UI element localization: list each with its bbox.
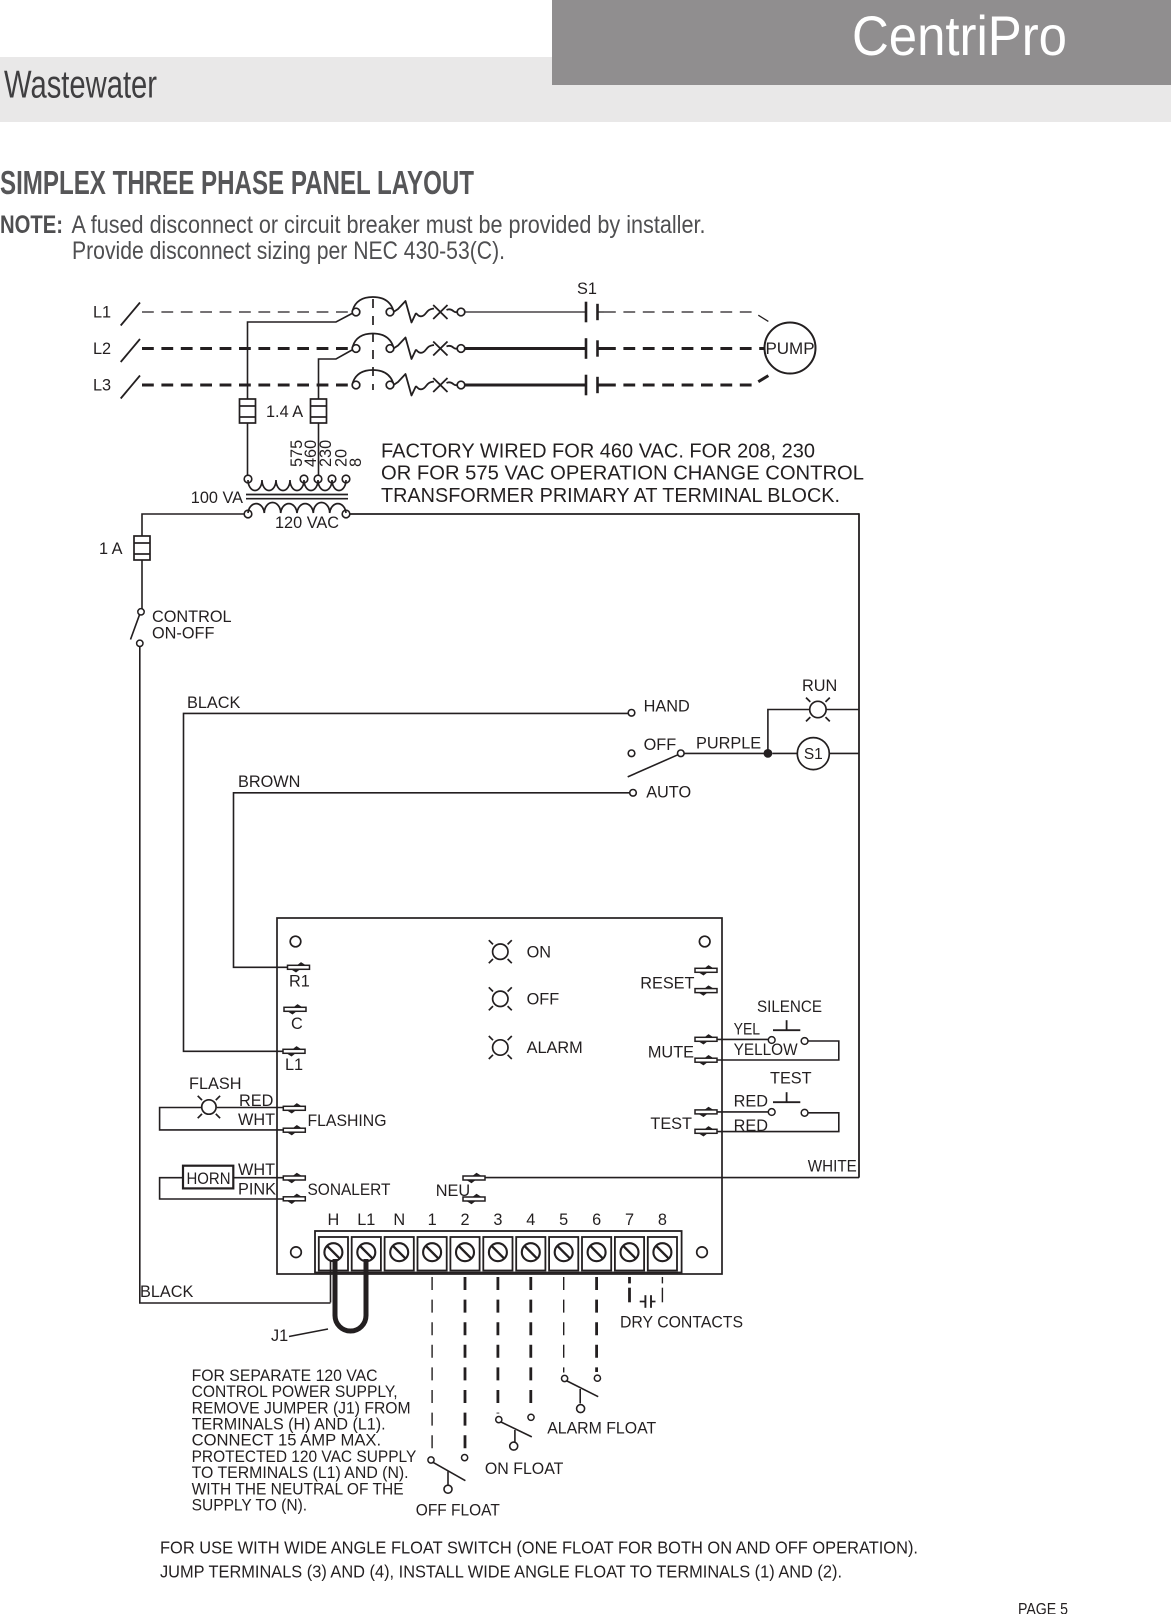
wire dashed L3 to contactor bbox=[142, 384, 348, 387]
svg-text:3: 3 bbox=[493, 1211, 502, 1229]
svg-text:BLACK: BLACK bbox=[187, 694, 241, 712]
wire dashed terminal 2 drop bbox=[464, 1277, 467, 1452]
svg-text:8: 8 bbox=[658, 1211, 667, 1229]
terminal 2 cell bbox=[450, 1237, 479, 1271]
terminal 7 label bbox=[625, 1211, 634, 1229]
terminal 1 label bbox=[428, 1211, 437, 1229]
mounting hole top right bbox=[699, 936, 710, 947]
fuse F2 bbox=[311, 399, 327, 423]
contactor S1 power pole L2 bbox=[352, 334, 394, 353]
wire RED flash to tab bbox=[217, 1107, 287, 1109]
svg-text:NOTE:: NOTE: bbox=[0, 211, 63, 239]
wire OL to S1 contact L1 bbox=[465, 311, 585, 313]
terminal H cell bbox=[319, 1237, 348, 1271]
terminal 4 label bbox=[526, 1211, 535, 1229]
disconnect blade L3 bbox=[121, 376, 140, 399]
wire dashed terminal 5 drop bbox=[563, 1277, 565, 1373]
wire junction to coil S1 bbox=[772, 752, 797, 754]
svg-text:YELLOW: YELLOW bbox=[734, 1041, 799, 1059]
selector switch HAND-OFF-AUTO bbox=[628, 710, 684, 797]
terminal tab NEU top bbox=[463, 1173, 485, 1183]
svg-text:100 VA: 100 VA bbox=[191, 489, 243, 507]
control board outline bbox=[277, 918, 722, 1274]
terminal N label bbox=[393, 1211, 405, 1229]
transformer primary tap labels 575 460 230 208 bbox=[288, 440, 306, 467]
transformer T1 primary winding with taps bbox=[244, 475, 350, 490]
horn box bbox=[183, 1166, 233, 1189]
wire tap L2 to fuse F2 bbox=[319, 350, 353, 399]
terminal tab SONALERT wht bbox=[283, 1173, 305, 1183]
svg-text:N: N bbox=[393, 1211, 405, 1229]
svg-text:7: 7 bbox=[625, 1211, 634, 1229]
contact S1 pole L2 bbox=[586, 338, 604, 359]
svg-text:PAGE 5: PAGE 5 bbox=[1018, 1601, 1068, 1615]
svg-text:1: 1 bbox=[428, 1211, 437, 1229]
lamp RUN bbox=[806, 698, 830, 722]
terminal 6 cell bbox=[582, 1237, 611, 1271]
terminal 4 cell bbox=[516, 1237, 545, 1271]
terminal tab FLASHING wht bbox=[283, 1125, 305, 1135]
wire BROWN to AUTO bbox=[234, 793, 630, 968]
svg-text:RED: RED bbox=[734, 1093, 768, 1111]
svg-text:NEU: NEU bbox=[436, 1182, 470, 1200]
svg-text:TEST: TEST bbox=[650, 1115, 692, 1133]
wire RUN lamp to bus bbox=[826, 709, 859, 711]
svg-text:J1: J1 bbox=[271, 1327, 288, 1345]
overload heater OL L3 bbox=[394, 374, 465, 396]
svg-text:RED: RED bbox=[239, 1092, 273, 1110]
terminal 5 cell bbox=[549, 1237, 578, 1271]
disconnect blade L1 bbox=[121, 303, 140, 326]
wire control switch down to H terminal bbox=[140, 647, 331, 1304]
terminal N cell bbox=[385, 1237, 414, 1271]
svg-text:MUTE: MUTE bbox=[648, 1043, 694, 1061]
svg-text:TRANSFORMER PRIMARY AT TERMINA: TRANSFORMER PRIMARY AT TERMINAL BLOCK. bbox=[381, 484, 840, 507]
svg-text:1.4 A: 1.4 A bbox=[266, 403, 303, 421]
terminal tab RESET top bbox=[695, 965, 717, 975]
coil S1 bbox=[797, 738, 829, 770]
svg-text:SIMPLEX THREE PHASE PANEL LAYO: SIMPLEX THREE PHASE PANEL LAYOUT bbox=[0, 165, 474, 202]
terminal L1 cell bbox=[352, 1237, 381, 1271]
junction node bbox=[764, 749, 773, 758]
wire dashed S1 to pump L1 bbox=[604, 312, 769, 322]
svg-text:FOR USE WITH WIDE ANGLE FLOAT: FOR USE WITH WIDE ANGLE FLOAT SWITCH (ON… bbox=[160, 1538, 918, 1558]
svg-text:ON: ON bbox=[527, 943, 551, 961]
fuse F3 1 A bbox=[134, 536, 150, 560]
svg-text:BROWN: BROWN bbox=[238, 773, 300, 791]
svg-text:PURPLE: PURPLE bbox=[696, 735, 761, 753]
terminal 1 cell bbox=[418, 1237, 447, 1271]
wire dashed L1 to contactor bbox=[142, 311, 348, 313]
terminal tab TEST bottom bbox=[695, 1126, 717, 1136]
header light gray bar bbox=[0, 57, 1171, 122]
svg-text:S1: S1 bbox=[577, 280, 597, 298]
wire OL to S1 contact L2 bbox=[465, 347, 585, 350]
wire OL to S1 contact L3 bbox=[465, 384, 585, 387]
wire secondary left to fuse 1A bbox=[142, 514, 244, 536]
terminal tab RESET bottom bbox=[695, 985, 717, 995]
terminal tab MUTE bottom bbox=[695, 1055, 717, 1065]
terminal L1 label bbox=[357, 1211, 375, 1229]
svg-text:Provide disconnect sizing per: Provide disconnect sizing per NEC 430-53… bbox=[72, 237, 505, 265]
svg-text:L1: L1 bbox=[285, 1056, 303, 1074]
wire BLACK to HAND bbox=[184, 713, 629, 1051]
mounting hole bottom right bbox=[697, 1247, 708, 1258]
svg-text:L1: L1 bbox=[357, 1211, 375, 1229]
terminal strip outline bbox=[315, 1231, 682, 1273]
wire PINK horn loop bbox=[160, 1178, 287, 1199]
header gray CentriPro box bbox=[552, 0, 1171, 85]
terminal tab C bbox=[284, 1004, 306, 1014]
svg-text:OR FOR 575 VAC OPERATION CHANG: OR FOR 575 VAC OPERATION CHANGE CONTROL bbox=[381, 462, 864, 485]
wire junction to RUN lamp bbox=[768, 710, 810, 754]
svg-text:JUMP TERMINALS (3) AND (4), IN: JUMP TERMINALS (3) AND (4), INSTALL WIDE… bbox=[160, 1561, 842, 1581]
node L2 label bbox=[93, 340, 111, 358]
terminal 5 label bbox=[559, 1211, 568, 1229]
terminal tab SONALERT pink bbox=[283, 1194, 305, 1204]
terminal 8 label bbox=[658, 1211, 667, 1229]
switch ON FLOAT bbox=[496, 1414, 534, 1450]
overload heater OL L2 bbox=[394, 338, 465, 360]
contactor S1 power pole L3 bbox=[352, 370, 394, 389]
svg-text:DRY CONTACTS: DRY CONTACTS bbox=[620, 1314, 743, 1332]
wire secondary right to bus bbox=[350, 513, 859, 515]
svg-text:OFF: OFF bbox=[644, 736, 677, 754]
node L1 label bbox=[93, 304, 111, 322]
svg-text:FLASHING: FLASHING bbox=[308, 1112, 387, 1130]
svg-text:120 VAC: 120 VAC bbox=[275, 514, 339, 532]
svg-text:SUPPLY TO (N).: SUPPLY TO (N). bbox=[192, 1496, 308, 1515]
svg-text:R1: R1 bbox=[289, 973, 310, 991]
svg-text:TEST: TEST bbox=[770, 1069, 812, 1087]
wire coil S1 to bus bbox=[829, 752, 859, 754]
pump motor bbox=[765, 323, 816, 374]
switch OFF FLOAT bbox=[428, 1455, 468, 1494]
bus wire right side bbox=[858, 513, 860, 1177]
svg-text:WHT: WHT bbox=[238, 1111, 275, 1129]
wire dashed terminal 7 drop bbox=[628, 1277, 631, 1302]
svg-text:RED: RED bbox=[734, 1117, 768, 1135]
contactor S1 power pole L1 bbox=[352, 297, 394, 316]
wire PURPLE from selector to junction bbox=[684, 752, 768, 754]
transformer core bbox=[246, 495, 348, 499]
svg-text:Wastewater: Wastewater bbox=[4, 64, 157, 107]
terminal tab MUTE top bbox=[695, 1034, 717, 1044]
terminal tab L1 board bbox=[283, 1046, 305, 1056]
svg-text:RESET: RESET bbox=[640, 975, 694, 993]
wire F2 to transformer 460 tap bbox=[318, 423, 320, 476]
dry contact symbol bbox=[640, 1295, 656, 1308]
terminal tab R1 bbox=[288, 962, 310, 972]
lamp OFF bbox=[489, 987, 512, 1010]
svg-text:L2: L2 bbox=[93, 340, 111, 358]
svg-text:ON FLOAT: ON FLOAT bbox=[485, 1460, 564, 1478]
switch ALARM FLOAT bbox=[562, 1375, 601, 1413]
wire dashed terminal 4 drop bbox=[529, 1277, 532, 1411]
wire WHT flash loop bbox=[160, 1108, 287, 1130]
svg-text:2: 2 bbox=[460, 1211, 469, 1229]
wire dashed S1 to pump L2 bbox=[604, 347, 764, 350]
svg-text:C: C bbox=[291, 1015, 303, 1033]
svg-text:A fused disconnect or circuit: A fused disconnect or circuit breaker mu… bbox=[72, 211, 706, 239]
wire F1 to transformer 575 tap bbox=[247, 423, 249, 476]
wire dashed terminal 6 drop bbox=[595, 1277, 598, 1372]
svg-text:8: 8 bbox=[347, 458, 365, 467]
svg-text:AUTO: AUTO bbox=[646, 783, 691, 801]
contact S1 pole L1 bbox=[586, 302, 604, 323]
lamp ALARM bbox=[489, 1036, 512, 1059]
svg-text:SONALERT: SONALERT bbox=[308, 1181, 391, 1199]
terminal 8 cell bbox=[648, 1237, 677, 1271]
svg-text:OFF: OFF bbox=[527, 990, 560, 1008]
svg-text:6: 6 bbox=[592, 1211, 601, 1229]
svg-text:PUMP: PUMP bbox=[765, 339, 814, 358]
svg-text:4: 4 bbox=[526, 1211, 535, 1229]
pushbutton TEST bbox=[768, 1092, 808, 1116]
svg-text:WHITE: WHITE bbox=[808, 1158, 857, 1176]
contact S1 pole L3 bbox=[586, 375, 604, 396]
svg-text:CONTROL: CONTROL bbox=[152, 608, 232, 626]
wire dashed terminal 1 drop bbox=[431, 1277, 433, 1454]
J1 pointer line bbox=[289, 1329, 328, 1337]
transformer T1 secondary winding 120 VAC bbox=[244, 502, 350, 517]
wire dashed L2 to contactor bbox=[142, 347, 348, 350]
svg-text:PINK: PINK bbox=[238, 1181, 276, 1199]
jumper J1 bbox=[335, 1259, 366, 1331]
terminal tab TEST top bbox=[695, 1107, 717, 1117]
svg-text:BLACK: BLACK bbox=[140, 1283, 194, 1301]
terminal 3 cell bbox=[483, 1237, 512, 1271]
wire dashed S1 to pump L3 bbox=[604, 376, 769, 386]
svg-text:H: H bbox=[328, 1211, 340, 1229]
wire YELLOW silence button loop bbox=[717, 1041, 839, 1060]
wire F3 to control switch bbox=[141, 560, 143, 609]
contactor mechanical link bbox=[372, 299, 374, 390]
svg-text:ALARM FLOAT: ALARM FLOAT bbox=[547, 1419, 656, 1437]
wire H terminal thin drop bbox=[330, 1261, 332, 1303]
lamp FLASH bbox=[198, 1096, 220, 1118]
svg-text:YEL: YEL bbox=[734, 1021, 761, 1039]
wire RED test top bbox=[717, 1111, 768, 1113]
terminal 3 label bbox=[493, 1211, 502, 1229]
wire YEL mute to silence button bbox=[717, 1038, 768, 1040]
wire RED test button loop bbox=[717, 1113, 839, 1132]
terminal tab FLASHING red bbox=[283, 1103, 305, 1113]
svg-text:L1: L1 bbox=[93, 304, 111, 322]
wire tap L1 to fuse F1 bbox=[248, 314, 353, 400]
svg-text:S1: S1 bbox=[804, 746, 823, 763]
svg-text:SILENCE: SILENCE bbox=[757, 998, 822, 1016]
svg-text:ON-OFF: ON-OFF bbox=[152, 624, 214, 642]
terminal 2 label bbox=[460, 1211, 469, 1229]
svg-text:1 A: 1 A bbox=[99, 540, 123, 558]
svg-text:FLASH: FLASH bbox=[189, 1075, 241, 1093]
svg-text:L3: L3 bbox=[93, 377, 111, 395]
svg-text:CentriPro: CentriPro bbox=[852, 4, 1067, 67]
svg-text:OFF FLOAT: OFF FLOAT bbox=[416, 1501, 500, 1519]
wire WHT horn to tab bbox=[233, 1177, 287, 1179]
terminal 7 cell bbox=[615, 1237, 644, 1271]
svg-text:HAND: HAND bbox=[644, 697, 690, 715]
lamp ON bbox=[489, 940, 512, 963]
wire NEU to bus WHITE bbox=[486, 1177, 860, 1179]
pushbutton SILENCE bbox=[768, 1020, 808, 1044]
svg-text:5: 5 bbox=[559, 1211, 568, 1229]
svg-text:ALARM: ALARM bbox=[527, 1039, 583, 1057]
mounting hole top left bbox=[290, 936, 301, 947]
node L3 label bbox=[93, 377, 111, 395]
svg-text:FACTORY WIRED FOR 460 VAC. FOR: FACTORY WIRED FOR 460 VAC. FOR 208, 230 bbox=[381, 440, 815, 463]
mounting hole bottom left bbox=[291, 1247, 302, 1258]
wire dashed terminal 8 drop bbox=[661, 1277, 663, 1302]
terminal H label bbox=[328, 1211, 340, 1229]
terminal 6 label bbox=[592, 1211, 601, 1229]
terminal tab NEU bottom bbox=[463, 1194, 485, 1204]
overload heater OL L1 bbox=[394, 301, 465, 323]
fuse F1 bbox=[240, 399, 256, 423]
wire dashed terminal 3 drop bbox=[496, 1277, 499, 1414]
svg-text:WHT: WHT bbox=[238, 1161, 275, 1179]
disconnect blade L2 bbox=[121, 339, 140, 362]
switch CONTROL ON-OFF bbox=[131, 609, 145, 647]
svg-text:RUN: RUN bbox=[802, 677, 837, 695]
svg-text:HORN: HORN bbox=[187, 1170, 231, 1188]
